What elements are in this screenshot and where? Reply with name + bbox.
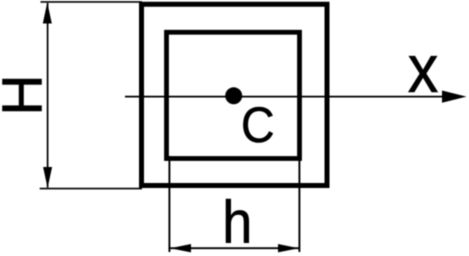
svg-text:H: H	[0, 74, 55, 115]
svg-text:h: h	[222, 189, 252, 256]
svg-text:x: x	[408, 30, 439, 107]
svg-text:C: C	[241, 97, 275, 153]
